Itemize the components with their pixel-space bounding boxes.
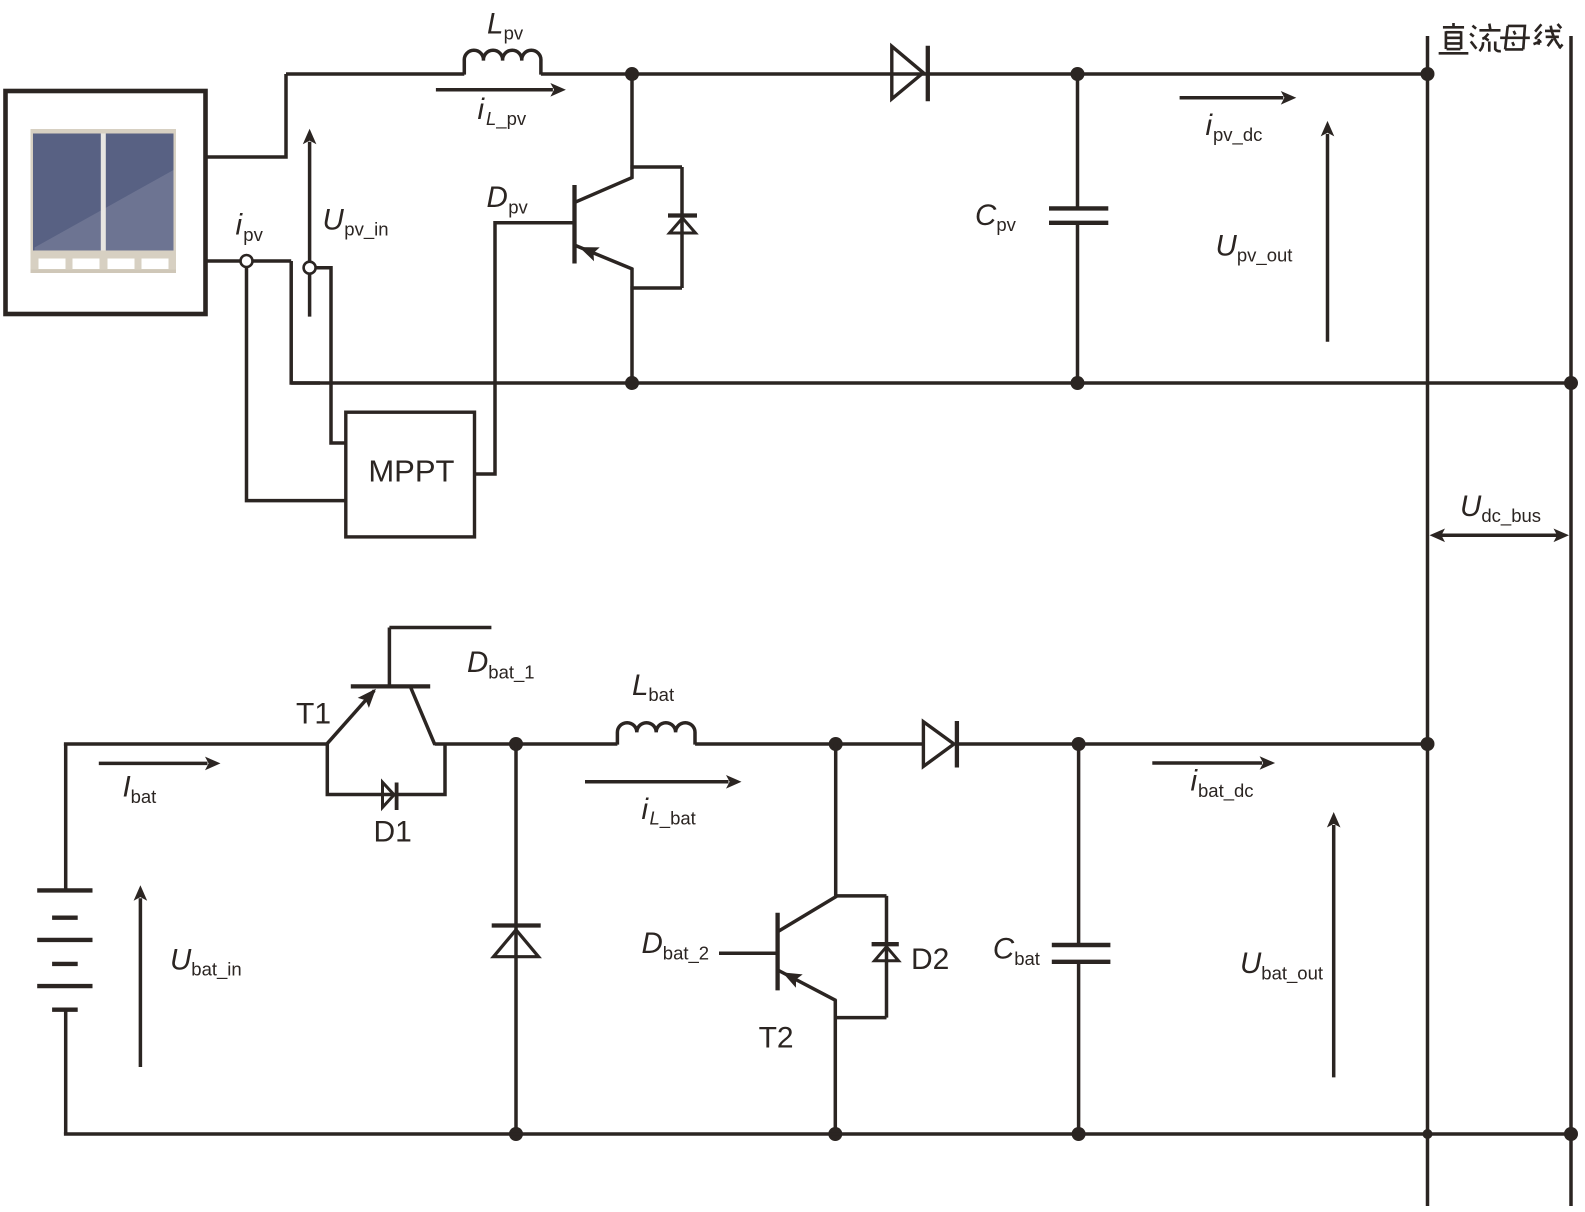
- junction node emitter / PV bottom rail: [625, 376, 639, 390]
- svg-text:D: D: [487, 181, 508, 214]
- capacitor C_bat: [1052, 744, 1111, 1134]
- current arrow i_L_pv: [436, 83, 566, 97]
- inductor L_bat: [617, 723, 695, 745]
- PV array source box: [6, 91, 206, 314]
- DC bus positive line: [1426, 36, 1430, 1206]
- wire PV box minus terminal: [206, 259, 291, 263]
- svg-text:bat_dc: bat_dc: [1198, 780, 1254, 802]
- label DC bus (Chinese: zhi liu mu xian): [1439, 23, 1563, 53]
- node U_pv_in sense (open circle): [304, 262, 316, 274]
- svg-text:D1: D1: [374, 815, 412, 848]
- svg-text:pv: pv: [508, 196, 528, 217]
- wire i_pv node down to bottom rail: [291, 261, 320, 383]
- svg-text:U: U: [170, 943, 192, 976]
- svg-text:pv: pv: [243, 224, 263, 245]
- wire battery rail to T1: [64, 742, 326, 746]
- DC bus return (right) line: [1569, 36, 1573, 1206]
- label i_L_pv: [478, 93, 527, 130]
- svg-text:D2: D2: [911, 943, 949, 976]
- svg-text:MPPT: MPPT: [368, 453, 454, 488]
- diode PV output (on top rail): [892, 46, 928, 101]
- label L_pv: [487, 7, 524, 43]
- label MPPT: [368, 453, 454, 488]
- transistor D_pv IGBT: [497, 74, 633, 383]
- label U_pv_out: [1216, 230, 1293, 267]
- svg-text:i: i: [236, 209, 244, 242]
- wire T1 collector to L_bat: [435, 742, 618, 746]
- diode battery output (on rail): [923, 721, 957, 768]
- label U_pv_in: [323, 203, 389, 240]
- transistor T2 IGBT: [719, 744, 837, 1134]
- label L_bat: [632, 669, 674, 705]
- current arrow I_bat: [99, 757, 221, 771]
- svg-text:L: L: [632, 669, 648, 702]
- label D2: [911, 943, 949, 976]
- junction node bottom rail / right return line: [1564, 1127, 1578, 1141]
- wire L_bat to T2 junction: [695, 742, 923, 746]
- diode shunt (battery leg): [492, 926, 541, 957]
- svg-text:D: D: [642, 927, 663, 960]
- wire i_pv sense to MPPT: [247, 267, 346, 501]
- wire collector stub to antiparallel diode: [630, 165, 682, 169]
- wire T2 emitter stub to D2: [834, 1016, 887, 1020]
- svg-text:bat_in: bat_in: [191, 959, 241, 981]
- dimension arrow U_dc_bus: [1430, 529, 1570, 543]
- junction node bottom rail / DC bus crossing: [1423, 1129, 1433, 1139]
- wire D1 bypass loop: [327, 744, 445, 795]
- label C_bat: [993, 933, 1040, 969]
- current arrow i_pv_dc: [1180, 91, 1297, 105]
- junction node C_bat / bottom rail: [1072, 1127, 1086, 1141]
- svg-text:U: U: [323, 203, 345, 236]
- node i_pv (open circle): [241, 255, 253, 267]
- svg-text:L_bat: L_bat: [650, 808, 696, 830]
- label D_bat_1: [467, 646, 535, 683]
- svg-text:T2: T2: [759, 1021, 794, 1054]
- junction node shunt diode / bottom rail: [509, 1127, 523, 1141]
- svg-text:I: I: [123, 771, 131, 804]
- voltage arrow U_bat_out: [1327, 812, 1341, 1077]
- current arrow i_L_bat: [585, 775, 742, 789]
- label U_bat_out: [1240, 947, 1323, 984]
- wire PV box plus terminal to top rail: [206, 74, 286, 157]
- svg-text:C: C: [975, 199, 997, 232]
- wire shunt diode branch: [514, 744, 518, 1134]
- label i_pv_dc: [1206, 109, 1263, 146]
- svg-text:dc_bus: dc_bus: [1481, 505, 1541, 527]
- label T1: [296, 697, 331, 730]
- diode antiparallel of D_pv: [668, 167, 697, 288]
- wire top rail from L_pv to diode: [541, 72, 928, 76]
- label D_pv: [487, 181, 529, 217]
- svg-text:L_pv: L_pv: [486, 108, 527, 130]
- svg-text:bat: bat: [1014, 948, 1040, 969]
- svg-text:U: U: [1216, 230, 1238, 263]
- capacitor C_pv: [1049, 74, 1108, 383]
- svg-text:i: i: [478, 93, 486, 126]
- label C_pv: [975, 199, 1017, 235]
- svg-text:C: C: [993, 933, 1015, 966]
- svg-text:pv_dc: pv_dc: [1213, 124, 1262, 146]
- wire T2 collector stub to D2: [834, 894, 887, 898]
- svg-text:bat_2: bat_2: [663, 943, 709, 965]
- label T2: [759, 1021, 794, 1054]
- svg-text:U: U: [1460, 490, 1482, 523]
- svg-text:bat: bat: [648, 684, 674, 705]
- voltage arrow U_pv_out: [1321, 121, 1335, 342]
- svg-text:pv_in: pv_in: [344, 219, 388, 241]
- label D_bat_2: [642, 927, 710, 964]
- block MPPT: [346, 412, 475, 537]
- label i_L_bat: [642, 793, 696, 830]
- svg-text:L: L: [487, 7, 503, 40]
- voltage arrow U_pv_in: [303, 129, 317, 317]
- inductor L_pv: [464, 50, 541, 74]
- junction node rail / C_bat: [1072, 737, 1086, 751]
- battery symbol: [37, 744, 92, 1134]
- svg-text:bat: bat: [131, 786, 157, 807]
- svg-text:bat_out: bat_out: [1261, 962, 1323, 984]
- diode D1: [383, 782, 397, 810]
- voltage arrow U_bat_in: [134, 885, 148, 1067]
- junction node top rail / IGBT collector: [625, 67, 639, 81]
- wire MPPT output to D_pv gate: [475, 223, 574, 474]
- junction node C_pv / PV bottom rail: [1071, 376, 1085, 390]
- wire PV bottom rail: [291, 381, 1571, 385]
- wire diode to DC bus: [957, 742, 1428, 746]
- svg-text:pv: pv: [996, 214, 1016, 235]
- wire top rail left segment: [286, 72, 464, 76]
- svg-text:pv: pv: [504, 22, 524, 43]
- svg-text:U: U: [1240, 947, 1262, 980]
- wire battery bottom rail: [64, 1132, 1571, 1136]
- PV panel artwork: [31, 129, 177, 273]
- label U_dc_bus: [1460, 490, 1541, 527]
- diode D2 antiparallel of T2: [872, 896, 899, 1018]
- wire emitter stub to antiparallel diode: [630, 286, 682, 290]
- label i_bat_dc: [1191, 765, 1254, 802]
- junction node top rail / DC bus: [1421, 67, 1435, 81]
- label U_bat_in: [170, 943, 242, 980]
- transistor T1 IGBT: [326, 628, 491, 745]
- wire top rail diode to DC bus: [928, 72, 1428, 76]
- junction node T2 emitter / bottom rail: [828, 1127, 842, 1141]
- svg-text:D: D: [467, 646, 488, 679]
- svg-text:pv_out: pv_out: [1237, 245, 1293, 267]
- junction node battery rail / T2 collector: [829, 737, 843, 751]
- junction node top rail / C_pv: [1071, 67, 1085, 81]
- svg-text:i: i: [642, 793, 650, 826]
- junction node T1 output / shunt diode: [509, 737, 523, 751]
- junction node PV bottom rail / right return line: [1564, 376, 1578, 390]
- svg-text:T1: T1: [296, 697, 331, 730]
- junction node battery rail / DC bus: [1421, 737, 1435, 751]
- svg-text:bat_1: bat_1: [488, 662, 534, 684]
- wire U_pv_in sense to MPPT: [315, 268, 346, 443]
- label i_pv: [236, 209, 264, 245]
- current arrow i_bat_dc: [1152, 756, 1275, 770]
- label D1: [374, 815, 412, 848]
- label I_bat: [123, 771, 157, 807]
